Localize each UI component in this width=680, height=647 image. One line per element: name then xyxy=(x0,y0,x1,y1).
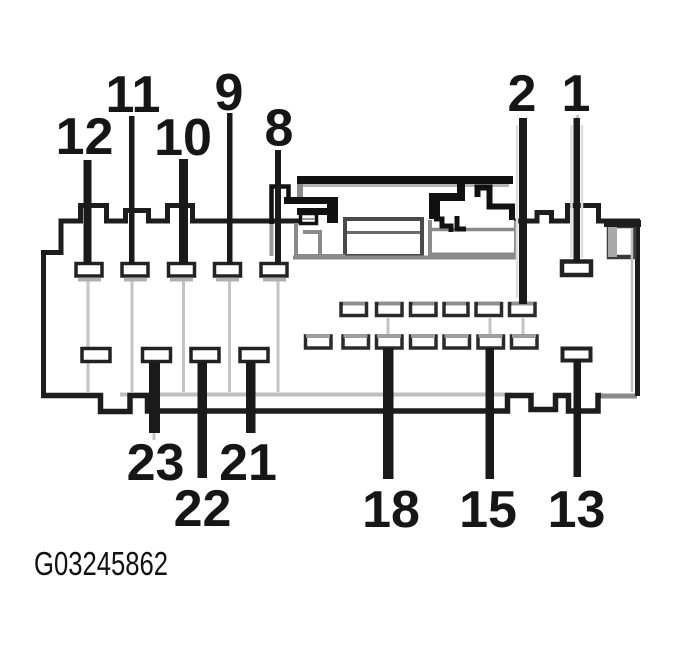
svg-text:1: 1 xyxy=(562,65,591,123)
svg-text:11: 11 xyxy=(106,66,161,124)
svg-text:8: 8 xyxy=(265,100,294,158)
svg-text:2: 2 xyxy=(508,65,537,123)
svg-text:9: 9 xyxy=(215,64,244,122)
svg-text:10: 10 xyxy=(154,109,212,167)
svg-text:G03245862: G03245862 xyxy=(34,545,168,582)
svg-text:13: 13 xyxy=(548,481,606,539)
svg-text:22: 22 xyxy=(174,480,232,538)
svg-text:18: 18 xyxy=(362,481,420,539)
svg-text:15: 15 xyxy=(459,481,517,539)
